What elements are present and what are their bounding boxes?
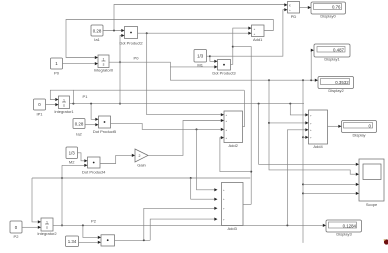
- gain U:Gain: [135, 149, 148, 168]
- svg-text:Integrator2: Integrator2: [37, 231, 57, 236]
- constant P2 value 0: [10, 221, 22, 239]
- display Display value 0: [342, 121, 377, 138]
- wire P1 branch to DotProduct5 in1: [91, 104, 98, 121]
- svg-text:s: s: [103, 62, 105, 66]
- sum block Add2: [224, 111, 243, 148]
- wire Add2 out up to long feedback line: [243, 90, 245, 127]
- svg-text:Display: Display: [352, 133, 365, 138]
- svg-text:Display2: Display2: [328, 88, 344, 93]
- wire P1 from Integrator1: [70, 103, 305, 105]
- wire P0 from Integrator0 to DotProduct3 in2: [109, 62, 218, 68]
- wire M1 branch to PD in2: [210, 8, 288, 56]
- svg-text:1/3: 1/3: [197, 54, 204, 59]
- svg-text:Add3: Add3: [228, 226, 238, 231]
- wire Add4 out to Display: [328, 125, 342, 128]
- wire Integrator1 feedback loop: [50, 90, 73, 103]
- svg-text:1.34: 1.34: [68, 239, 77, 244]
- wire P2 line to Display3: [53, 224, 326, 227]
- svg-text:1: 1: [103, 57, 105, 61]
- svg-text:s: s: [63, 103, 65, 107]
- wire DotProduct4 out to Gain: [100, 154, 135, 164]
- dot product U:DotProduct5: [93, 116, 117, 134]
- sum block Add4: [309, 110, 328, 149]
- integrator U:Integrator1: [54, 96, 74, 114]
- sum block Add1: [252, 25, 265, 42]
- wire Add3 out to column: [243, 203, 251, 205]
- display Display2 value 0.3532: [318, 77, 354, 94]
- wire DotProduct2 out to Add1 in2: [138, 32, 252, 35]
- wire column x269 to Scope in2: [268, 80, 359, 176]
- wire branch to Add4 in2: [269, 121, 309, 124]
- svg-text:Add1: Add1: [253, 37, 263, 42]
- svg-text:P0: P0: [54, 71, 60, 76]
- wire Gain out to Add2 in2: [148, 119, 224, 155]
- wire DotProduct3 branch down long column: [233, 47, 252, 205]
- wire IP1 to Integrator1 in2: [46, 103, 59, 106]
- wire loop to Add2 in4: [220, 136, 251, 172]
- wire branch up to Display1: [311, 49, 314, 81]
- wire long line y90 to Add2 column: [73, 89, 244, 91]
- wire P0 branch down to Display2 line: [170, 67, 318, 82]
- svg-text:1: 1: [46, 220, 48, 224]
- wire Ia1 branch up to PD in1: [114, 3, 288, 30]
- dot product U:DotProduct2: [119, 27, 143, 46]
- svg-text:0.3532: 0.3532: [335, 80, 349, 85]
- wire branch to Scope in4: [303, 192, 359, 195]
- wire column x303: [302, 80, 304, 243]
- svg-text:Display1: Display1: [324, 57, 340, 62]
- display Display0 value 0.76: [311, 2, 346, 19]
- wire feedback to Integrator2 in1: [32, 178, 41, 224]
- wire long line y178: [32, 177, 250, 179]
- svg-text:+: +: [254, 32, 256, 36]
- svg-text:Ia2: Ia2: [76, 132, 82, 137]
- svg-text:Integrator0: Integrator0: [94, 68, 114, 73]
- wire P2 branch up to Add4 in3: [287, 128, 308, 225]
- wire P1 branch to Add4 in1: [290, 104, 308, 117]
- constant M2 value 1/3: [66, 147, 78, 165]
- wire P0 constant to Integrator0 in2: [63, 62, 99, 65]
- constant Ia2 value 0.28: [73, 119, 85, 137]
- svg-text:Gain: Gain: [137, 163, 145, 168]
- red mark bottom right: [384, 239, 388, 245]
- wire branch to Add4 in4: [303, 136, 309, 139]
- wire branch to Add3 in4: [150, 218, 217, 241]
- svg-text:Dot Product2: Dot Product2: [119, 41, 143, 46]
- wire M1 to DotProduct3 in1: [207, 55, 218, 63]
- svg-text:0.1284: 0.1284: [343, 224, 357, 229]
- svg-text:Display3: Display3: [336, 232, 352, 237]
- svg-text:0.28: 0.28: [75, 121, 84, 126]
- integrator U:Integrator2: [37, 218, 57, 236]
- svg-text:1: 1: [63, 98, 65, 102]
- wire P2 column to DotProduct4 in2: [61, 164, 88, 227]
- svg-text:Dot Product3: Dot Product3: [212, 71, 236, 76]
- svg-text:P1: P1: [83, 94, 89, 99]
- svg-text:0.487: 0.487: [333, 47, 345, 52]
- constant M1 value 1/3: [194, 50, 207, 68]
- wire M2 to DotProduct4 in1: [78, 153, 88, 163]
- svg-text:Integrator1: Integrator1: [54, 109, 74, 114]
- wire DotProduct1 out: [115, 239, 151, 241]
- scope Scope: [359, 159, 384, 207]
- wire Ia2 to DotProduct5 in2: [85, 123, 99, 126]
- svg-text:0.76: 0.76: [332, 5, 341, 10]
- wire DotProduct2 branch down to Add2 in1: [147, 33, 224, 116]
- dot product U:DotProduct3: [212, 60, 236, 76]
- svg-text:Dot Product4: Dot Product4: [82, 170, 106, 175]
- wire P0 branch up to DotProduct2 in2: [119, 34, 125, 63]
- svg-text:P2: P2: [91, 219, 97, 224]
- svg-text:M2: M2: [69, 160, 75, 165]
- wire P2 constant to Integrator2 in2: [22, 226, 41, 229]
- constant P0 value 1: [51, 58, 63, 76]
- wire P2 branch to DotProduct1 in1: [83, 225, 101, 239]
- svg-text:P2: P2: [14, 234, 20, 239]
- divide block PD: [288, 2, 300, 20]
- wire branch to Add3 in2: [191, 178, 218, 201]
- wire Ia1 to DotProduct2 in1: [103, 29, 125, 32]
- svg-text:Display0: Display0: [320, 14, 336, 19]
- display Display3 value 0.1284: [326, 220, 362, 237]
- svg-text:PD: PD: [291, 14, 297, 19]
- wire branch to Add3 in3: [144, 207, 218, 241]
- svg-text:2: 2: [139, 154, 141, 158]
- wire branch to Scope in3: [303, 183, 359, 186]
- svg-text:Add2: Add2: [229, 143, 239, 148]
- sum block Add3: [222, 183, 244, 232]
- svg-text:Scope: Scope: [366, 202, 378, 207]
- svg-text:Add4: Add4: [313, 144, 323, 149]
- wire DotProduct5 out to Add2 in3: [111, 123, 225, 131]
- svg-text:÷: ÷: [289, 9, 291, 13]
- constant value 1.34: [66, 236, 79, 247]
- wire P1 branch to Scope in1: [259, 104, 359, 166]
- dot product U:DotProduct4: [82, 157, 106, 175]
- constant Ia1 value 0.28: [91, 25, 103, 42]
- svg-text:0.28: 0.28: [93, 29, 102, 34]
- wire Add1 feedback to Integrator0 in1: [66, 20, 273, 60]
- svg-text:Ia1: Ia1: [94, 37, 100, 42]
- wire DotProduct3 out to Add1 in1: [231, 27, 252, 65]
- wire column P0/P1: [119, 62, 121, 104]
- svg-text:1/3: 1/3: [69, 151, 76, 156]
- svg-text:IP1: IP1: [36, 112, 43, 117]
- constant IP1 value 0: [34, 99, 46, 117]
- display Display1 value 0.487: [314, 44, 350, 62]
- svg-text:P0: P0: [134, 56, 140, 61]
- wire DotProduct5 branch to Add3 in1: [197, 129, 218, 191]
- wire 1.34 to DotProduct1 in2: [78, 241, 101, 244]
- integrator U:Integrator0: [94, 55, 114, 73]
- dot product U:DotProduct1: [101, 235, 115, 246]
- svg-text:s: s: [46, 225, 48, 229]
- svg-text:Dot Product5: Dot Product5: [93, 129, 117, 134]
- svg-text:+: +: [254, 27, 256, 31]
- wire PD out to Display0: [300, 6, 312, 9]
